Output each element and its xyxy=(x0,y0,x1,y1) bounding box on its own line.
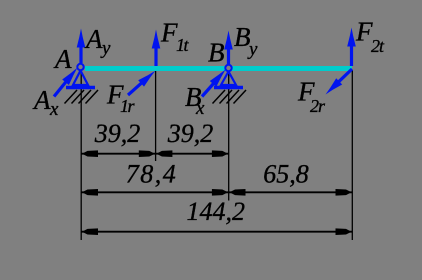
dimension line row 2 (78,4 + 65,8) xyxy=(81,191,352,193)
force F1t arrow xyxy=(152,30,161,67)
svg-text:x: x xyxy=(49,99,59,120)
dim arrow row3 left xyxy=(82,228,98,235)
svg-text:x: x xyxy=(195,98,205,119)
svg-text:2r: 2r xyxy=(310,96,326,116)
svg-text:78,4: 78,4 xyxy=(126,159,178,188)
support B hatch 3 xyxy=(227,90,240,104)
dim arrow row1 right xyxy=(212,150,228,157)
svg-text:A: A xyxy=(32,85,51,115)
svg-text:39,2: 39,2 xyxy=(94,119,141,148)
svg-text:144,2: 144,2 xyxy=(187,197,246,226)
support A hatch 1 xyxy=(65,90,78,104)
label Ax xyxy=(32,85,59,120)
support B hatch 4 xyxy=(234,90,247,104)
svg-text:65,8: 65,8 xyxy=(263,159,309,188)
support B ground line xyxy=(214,86,243,90)
dim arrow row1 left-out xyxy=(82,150,98,157)
dim arrow row2 B-left xyxy=(212,189,228,196)
dimension line row 1 (39,2 + 39,2) xyxy=(81,153,229,155)
label F1r xyxy=(106,80,136,117)
label F2t xyxy=(355,17,385,57)
dim arrow row1 mid-left xyxy=(139,150,155,157)
support A ground line xyxy=(66,86,95,90)
extension line at F2 xyxy=(351,70,353,240)
svg-text:y: y xyxy=(100,38,111,59)
beam AB (cyan) xyxy=(85,66,352,71)
force F1r arrow xyxy=(128,71,155,95)
force Ay arrow xyxy=(77,29,86,64)
svg-text:2t: 2t xyxy=(371,36,385,56)
svg-text:A: A xyxy=(84,24,103,54)
dim arrow row2 B-right xyxy=(230,189,246,196)
dimension line row 3 (144,2) xyxy=(81,231,352,233)
support B hatch 1 xyxy=(213,90,226,104)
support B triangle xyxy=(221,72,236,86)
svg-text:B: B xyxy=(208,38,225,68)
dim arrow row2 left xyxy=(82,189,98,196)
support A hatch 4 xyxy=(86,90,99,104)
support A triangle xyxy=(73,71,88,86)
force F2r arrow xyxy=(326,69,353,95)
force Bx arrow xyxy=(202,70,226,97)
svg-text:A: A xyxy=(53,44,72,74)
extension line at F1 xyxy=(155,71,157,161)
dim arrow row2 right xyxy=(336,189,352,196)
support B pin circle xyxy=(225,65,231,71)
label F1t xyxy=(160,18,190,56)
support A hatch 3 xyxy=(79,90,92,104)
force Ax arrow xyxy=(54,68,78,97)
svg-text:y: y xyxy=(247,39,258,60)
support A pin circle xyxy=(77,64,83,70)
extension line at A xyxy=(80,70,82,240)
label Bx xyxy=(185,82,205,119)
support B hatch 2 xyxy=(220,90,233,104)
extension line at B xyxy=(228,72,230,201)
label By xyxy=(234,22,258,60)
support A hatch 2 xyxy=(72,90,85,104)
label F2r xyxy=(297,77,326,117)
force By arrow xyxy=(224,31,233,65)
label Ay xyxy=(84,24,111,59)
force F2t arrow xyxy=(347,28,356,67)
svg-text:39,2: 39,2 xyxy=(167,119,214,148)
dim arrow row1 mid-right xyxy=(156,150,172,157)
dim arrow row3 right xyxy=(336,228,352,235)
